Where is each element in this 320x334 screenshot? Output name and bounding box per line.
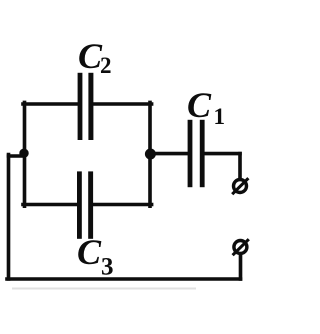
wire: outer bottom horizontal [7,277,241,281]
capacitor C2 [78,73,94,140]
wire: bottom branch right segment [93,203,152,207]
svg-text:3: 3 [101,254,114,281]
wire: outer left vertical [7,155,11,280]
wire: top branch right segment [93,102,151,106]
wire: right inner vertical [148,102,152,206]
node A junction dot [19,149,28,158]
svg-text:C: C [77,232,102,272]
node B junction dot [145,149,156,160]
svg-text:C: C [187,85,212,125]
terminal 2 (circle with slash) [233,239,249,255]
wire: bottom branch left segment [23,203,77,207]
wire: node A stub to outer loop [9,154,25,158]
wire: terminal 1 drop [238,154,242,178]
svg-text:1: 1 [214,104,226,129]
svg-text:2: 2 [100,53,112,78]
capacitor C1 [188,120,205,187]
wire: C1 to terminal 1 [205,152,240,156]
wire: node B to C1 [150,152,187,156]
scan shadow under bottom wire [12,288,196,290]
capacitor C3 [77,171,93,238]
terminal 1 (circle with slash) [232,178,248,194]
wire: left inner vertical [23,102,27,206]
wire: top branch left segment [23,102,78,106]
wire: outer right vertical to terminal 2 [239,256,243,280]
